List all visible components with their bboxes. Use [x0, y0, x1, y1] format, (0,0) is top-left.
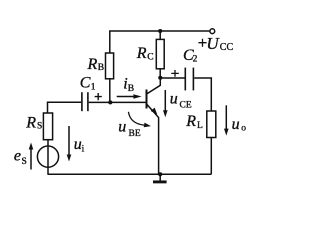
plus sign C1 [95, 93, 102, 100]
svg-text:BE: BE [129, 129, 141, 139]
svg-text:u: u [118, 119, 126, 136]
wire RL bottom [210, 138, 212, 175]
arrow eS (up) [30, 148, 32, 170]
svg-text:u: u [74, 136, 82, 153]
node emitter-ground junction [158, 172, 162, 176]
wire bottom rail [48, 173, 212, 175]
wire collector node to C2 [160, 77, 184, 79]
svg-text:R: R [136, 45, 147, 62]
node collector junction [158, 76, 162, 80]
svg-text:2: 2 [193, 54, 198, 64]
node base junction [108, 100, 112, 104]
svg-text:B: B [98, 63, 104, 73]
wire RB to base [109, 79, 111, 103]
wire top rail [110, 31, 210, 53]
resistor RC [156, 39, 164, 68]
arrow uCE (down) [164, 90, 166, 112]
svg-text:R: R [185, 113, 196, 130]
capacitor C2 [185, 68, 193, 91]
transistor Q1 emitter lead [147, 105, 159, 175]
wire through source to bottom rail [47, 146, 49, 174]
svg-text:CE: CE [180, 101, 192, 111]
svg-text:u: u [232, 116, 240, 133]
resistor RL [207, 111, 216, 138]
wire RS to C1 [48, 102, 82, 113]
capacitor C1 [82, 92, 88, 111]
ground [159, 174, 161, 181]
svg-text:C: C [80, 75, 91, 92]
svg-text:L: L [197, 121, 203, 131]
svg-text:e: e [14, 148, 21, 165]
terminal +UCC [210, 29, 215, 34]
arrow iB (right) [117, 96, 134, 98]
resistor RB [106, 53, 114, 79]
wire RC drop [159, 31, 161, 39]
wire RC to collector node [159, 69, 161, 78]
node top-RC junction [158, 29, 162, 33]
transistor Q1 emitter arrowhead [151, 108, 158, 115]
svg-text:CC: CC [220, 42, 234, 53]
svg-text:i: i [82, 145, 85, 155]
arrow uo (down) [225, 105, 227, 130]
svg-text:u: u [170, 91, 178, 108]
arrow uBE (curved) [128, 112, 144, 125]
svg-text:o: o [241, 124, 246, 134]
source eS circle [37, 146, 58, 167]
wire RS to source [47, 140, 49, 146]
svg-text:C: C [147, 53, 153, 63]
transistor Q1 base bar [146, 90, 148, 109]
svg-text:S: S [37, 122, 42, 132]
arrow ui (down) [68, 126, 70, 156]
plus sign C2 [171, 70, 179, 77]
wire C2 to RL [194, 78, 211, 111]
svg-text:R: R [25, 114, 36, 131]
svg-text:1: 1 [91, 83, 96, 93]
svg-text:R: R [87, 56, 98, 73]
transistor Q1 collector lead [147, 78, 160, 94]
wire base [89, 101, 147, 103]
svg-text:S: S [22, 157, 27, 167]
svg-text:B: B [128, 84, 134, 94]
resistor RS [43, 113, 52, 140]
plus sign UCC [198, 39, 206, 47]
svg-text:U: U [206, 34, 220, 53]
